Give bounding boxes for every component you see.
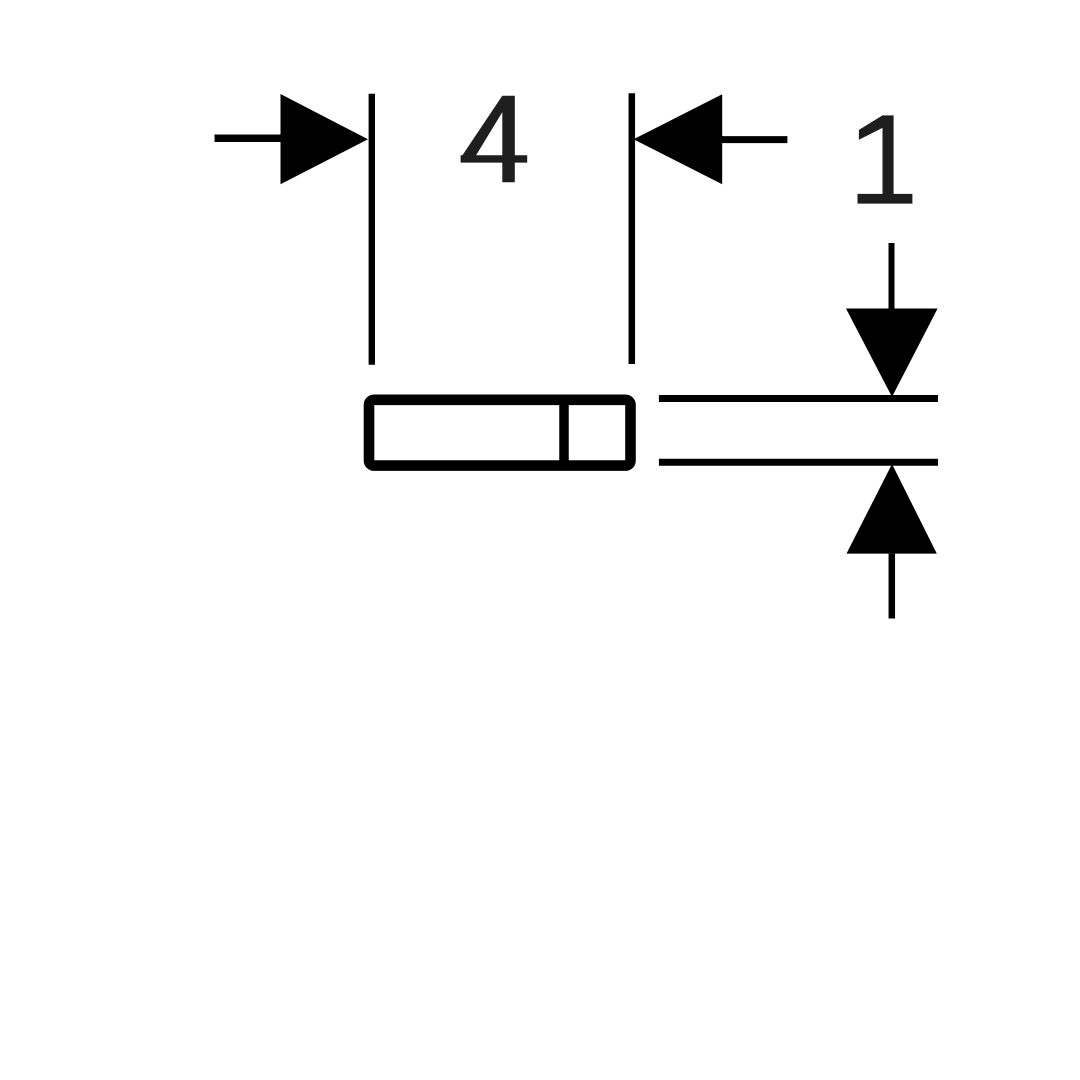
left dimension arrow tail (pointing right)	[215, 134, 282, 142]
strip cross-section divider	[559, 400, 569, 465]
extension line left (width dim "4")	[369, 94, 375, 365]
right dimension arrowhead (pointing left)	[634, 94, 723, 184]
strip cross-section outline	[369, 400, 631, 466]
up arrow tail (thickness dim)	[889, 554, 896, 619]
extension line right (width dim "4")	[629, 93, 636, 364]
down arrowhead (thickness dim)	[846, 309, 938, 397]
left dimension arrowhead (pointing right)	[281, 94, 369, 184]
dimension label "4"	[461, 96, 528, 183]
up arrowhead (thickness dim)	[847, 464, 937, 554]
down arrow tail (thickness dim)	[889, 243, 895, 310]
thickness top line	[659, 395, 938, 402]
right dimension arrow tail (pointing left)	[722, 136, 787, 143]
thickness bottom line	[659, 459, 938, 466]
dimension label "1"	[858, 115, 913, 203]
